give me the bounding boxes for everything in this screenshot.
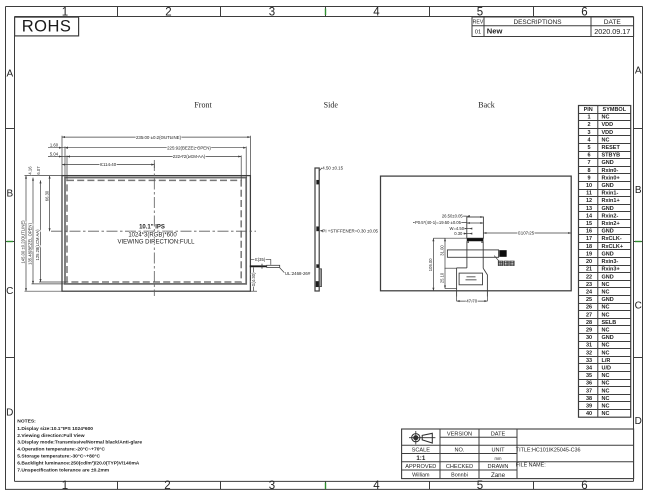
svg-text:26: 26 bbox=[586, 305, 592, 311]
svg-text:31: 31 bbox=[586, 343, 592, 349]
svg-text:4.Operation temperature:-20°C~: 4.Operation temperature:-20°C~+70°C bbox=[17, 447, 105, 453]
bottom green centering mark bbox=[325, 481, 327, 489]
svg-text:NC: NC bbox=[602, 411, 610, 417]
svg-text:NC: NC bbox=[602, 350, 610, 356]
svg-text:RESET: RESET bbox=[602, 145, 621, 151]
svg-text:NC: NC bbox=[602, 381, 610, 387]
svg-text:1: 1 bbox=[62, 480, 68, 492]
svg-text:Rxin1-: Rxin1- bbox=[602, 191, 619, 197]
svg-text:2: 2 bbox=[587, 122, 590, 128]
svg-text:NC: NC bbox=[602, 137, 610, 143]
svg-text:12: 12 bbox=[586, 198, 592, 204]
svg-text:01: 01 bbox=[475, 29, 481, 35]
svg-text:Rxin2+: Rxin2+ bbox=[602, 221, 620, 227]
front view active area dashed rectangle bbox=[67, 180, 241, 282]
svg-text:DESCRIPTIONS: DESCRIPTIONS bbox=[514, 19, 562, 26]
svg-text:SCALE: SCALE bbox=[412, 448, 431, 454]
svg-text:NC: NC bbox=[602, 396, 610, 402]
back dim vertical 105.00 bbox=[432, 238, 434, 291]
bottom strip ticks bbox=[117, 481, 119, 489]
svg-text:24: 24 bbox=[586, 289, 593, 295]
svg-text:VDD: VDD bbox=[602, 130, 614, 136]
svg-text:DATE: DATE bbox=[604, 19, 622, 26]
svg-text:21: 21 bbox=[586, 267, 592, 273]
dimension small 5.04 bbox=[48, 156, 67, 158]
svg-text:17: 17 bbox=[586, 236, 592, 242]
svg-text:PIN: PIN bbox=[584, 107, 593, 113]
svg-text:DATE: DATE bbox=[491, 431, 506, 437]
svg-text:5.04: 5.04 bbox=[50, 151, 59, 156]
svg-text:UNIT: UNIT bbox=[491, 448, 505, 454]
dimension C114.40 center bbox=[62, 164, 154, 166]
svg-text:28: 28 bbox=[586, 320, 592, 326]
label box text lines bbox=[467, 276, 476, 278]
svg-text:1024*3(RGB)*600: 1024*3(RGB)*600 bbox=[128, 233, 177, 239]
front view bezel opening rectangle bbox=[65, 178, 246, 284]
svg-text:C: C bbox=[635, 301, 642, 312]
svg-text:mm: mm bbox=[495, 456, 502, 461]
svg-text:0.30: 0.30 bbox=[454, 231, 463, 236]
svg-text:Bonnbi: Bonnbi bbox=[451, 473, 468, 479]
svg-text:2: 2 bbox=[165, 6, 171, 18]
svg-text:Rxin3-: Rxin3- bbox=[602, 259, 619, 265]
svg-text:25.10: 25.10 bbox=[440, 272, 445, 283]
svg-text:13: 13 bbox=[586, 206, 592, 212]
svg-text:6.Backlight luminance:250(cd/m: 6.Backlight luminance:250(cd/m²)/20.0(TY… bbox=[17, 461, 140, 467]
front view vertical center line bbox=[153, 160, 155, 296]
svg-text:22: 22 bbox=[586, 274, 592, 280]
svg-text:38: 38 bbox=[586, 396, 592, 402]
extension lines left bbox=[25, 175, 63, 177]
back dim vertical 31.00 and 25.10 bbox=[444, 238, 446, 288]
svg-text:D: D bbox=[635, 416, 642, 427]
svg-text:5: 5 bbox=[477, 480, 483, 492]
svg-text:William: William bbox=[412, 473, 430, 479]
svg-text:APPROVED: APPROVED bbox=[405, 464, 436, 470]
svg-text:35: 35 bbox=[586, 373, 592, 379]
svg-text:225.92(BEZEL OPEN): 225.92(BEZEL OPEN) bbox=[167, 145, 211, 150]
svg-text:Rxin2-: Rxin2- bbox=[602, 213, 619, 219]
side view black segment middle bbox=[316, 227, 319, 232]
back fpc tail widening bbox=[457, 267, 467, 269]
dimension 47.70 fpc tail width bbox=[456, 297, 458, 302]
dimension 19.50 pins bbox=[467, 222, 470, 224]
dimension W=4.50 bbox=[464, 228, 471, 230]
svg-text:STBYB: STBYB bbox=[602, 153, 621, 159]
svg-text:33: 33 bbox=[586, 358, 592, 364]
svg-text:Rxin0+: Rxin0+ bbox=[602, 175, 620, 181]
svg-text:RxCLK+: RxCLK+ bbox=[602, 244, 624, 250]
svg-text:GND: GND bbox=[602, 297, 614, 303]
svg-text:New: New bbox=[487, 27, 503, 36]
svg-text:Front: Front bbox=[194, 101, 212, 110]
svg-text:VDD: VDD bbox=[602, 122, 614, 128]
svg-text:Back: Back bbox=[478, 101, 494, 110]
dimension 222.72 lcm aa width bbox=[67, 156, 241, 158]
svg-text:11: 11 bbox=[586, 191, 592, 197]
svg-text:C: C bbox=[6, 286, 13, 297]
back view outline rectangle bbox=[381, 176, 572, 291]
svg-text:4: 4 bbox=[373, 480, 380, 492]
dimension 66.30 center height bbox=[49, 176, 51, 232]
masking tape chinese label bbox=[498, 261, 503, 266]
dimension C(35) bbox=[250, 258, 270, 260]
svg-text:145.00 ±0.2(OUTLINE): 145.00 ±0.2(OUTLINE) bbox=[21, 220, 26, 264]
svg-text:6.07: 6.07 bbox=[36, 166, 41, 175]
svg-text:6: 6 bbox=[581, 480, 587, 492]
masking tape leader bbox=[494, 256, 499, 262]
back fpc connector body bbox=[467, 217, 484, 238]
svg-text:125.28(LCM AA): 125.28(LCM AA) bbox=[35, 229, 40, 261]
svg-text:29: 29 bbox=[586, 327, 592, 333]
svg-text:SELB: SELB bbox=[602, 320, 617, 326]
svg-text:DRAWN: DRAWN bbox=[488, 464, 509, 470]
svg-text:NOTES:: NOTES: bbox=[17, 418, 36, 424]
svg-text:16: 16 bbox=[586, 229, 592, 235]
dimension 0.30 bbox=[464, 233, 471, 235]
right strip ticks bbox=[634, 128, 643, 130]
svg-text:NC: NC bbox=[602, 403, 610, 409]
svg-text:PI +STIFFENER=0.30 ±0.05: PI +STIFFENER=0.30 ±0.05 bbox=[322, 228, 378, 233]
svg-text:2020.09.17: 2020.09.17 bbox=[594, 27, 630, 36]
dimension small 1.60 bbox=[48, 147, 65, 149]
svg-text:15: 15 bbox=[586, 221, 592, 227]
svg-text:NO.: NO. bbox=[455, 448, 465, 454]
svg-text:VERSION: VERSION bbox=[447, 431, 472, 437]
side dimension 4.50 bbox=[320, 168, 323, 171]
svg-text:66.30: 66.30 bbox=[44, 190, 49, 201]
svg-text:6: 6 bbox=[587, 153, 590, 159]
svg-text:A: A bbox=[635, 66, 642, 77]
back masking tape slot bbox=[447, 250, 498, 257]
svg-text:NC: NC bbox=[602, 305, 610, 311]
svg-text:20: 20 bbox=[586, 259, 592, 265]
svg-text:2.Viewing direction:Full View: 2.Viewing direction:Full View bbox=[17, 433, 84, 439]
svg-text:NC: NC bbox=[602, 282, 610, 288]
third angle projection symbol bbox=[409, 431, 435, 444]
svg-text:GND: GND bbox=[602, 183, 614, 189]
svg-text:14: 14 bbox=[586, 213, 593, 219]
svg-text:Rxin1+: Rxin1+ bbox=[602, 198, 620, 204]
svg-text:23: 23 bbox=[586, 282, 592, 288]
side view black segment top bbox=[316, 180, 319, 184]
front fpc tail bbox=[267, 265, 280, 267]
svg-text:3: 3 bbox=[269, 480, 275, 492]
svg-text:C114.40: C114.40 bbox=[100, 162, 117, 167]
left strip ticks bbox=[5, 128, 15, 130]
svg-text:4.50 ±0.15: 4.50 ±0.15 bbox=[322, 165, 343, 170]
extension lines top bbox=[61, 136, 63, 176]
svg-text:B: B bbox=[635, 185, 642, 196]
svg-text:1.60: 1.60 bbox=[50, 143, 59, 148]
svg-text:Zane: Zane bbox=[491, 472, 506, 479]
top strip ticks bbox=[117, 7, 119, 17]
svg-text:L/R: L/R bbox=[602, 358, 611, 364]
dimension 125.28 aa height bbox=[40, 180, 42, 282]
back fpc tail sides bbox=[466, 241, 468, 268]
ROHS logo box bbox=[15, 17, 79, 36]
side view fpc fold bar bbox=[319, 269, 321, 287]
svg-text:105.00: 105.00 bbox=[428, 258, 433, 271]
side view black segment bottom bbox=[316, 281, 319, 287]
svg-text:47.70: 47.70 bbox=[466, 299, 478, 304]
svg-text:36: 36 bbox=[586, 381, 592, 387]
svg-text:Rxin3+: Rxin3+ bbox=[602, 267, 620, 273]
svg-text:A: A bbox=[6, 69, 13, 80]
svg-text:TITLE:HC101IK25045-C36: TITLE:HC101IK25045-C36 bbox=[516, 448, 581, 454]
front view outline rectangle bbox=[62, 176, 250, 292]
side view black segment lower bbox=[316, 264, 319, 267]
svg-text:GND: GND bbox=[602, 229, 614, 235]
svg-text:4.16: 4.16 bbox=[28, 166, 33, 175]
svg-text:SYMBOL: SYMBOL bbox=[603, 107, 627, 113]
svg-text:CHECKED: CHECKED bbox=[446, 464, 473, 470]
svg-text:NC: NC bbox=[602, 343, 610, 349]
svg-text:NC: NC bbox=[602, 289, 610, 295]
title block frame bbox=[402, 429, 634, 479]
svg-text:5.Storage temperature:-30°C~+8: 5.Storage temperature:-30°C~+80°C bbox=[17, 454, 100, 460]
dimension 145.00 outline height bbox=[25, 176, 27, 292]
svg-text:4: 4 bbox=[373, 6, 380, 18]
svg-text:10.1" IPS: 10.1" IPS bbox=[139, 224, 165, 230]
back fpc connector black bar bbox=[467, 238, 484, 241]
svg-text:34: 34 bbox=[586, 365, 593, 371]
front view horizontal center line bbox=[51, 230, 256, 232]
svg-text:C(35): C(35) bbox=[255, 257, 266, 262]
side view body bbox=[315, 168, 319, 291]
back label box bbox=[459, 273, 482, 285]
svg-text:NC: NC bbox=[602, 312, 610, 318]
masking tape black square bbox=[499, 250, 506, 257]
svg-text:18: 18 bbox=[586, 244, 592, 250]
inner border frame bbox=[14, 17, 16, 482]
svg-text:RxCLK-: RxCLK- bbox=[602, 236, 622, 242]
svg-text:27: 27 bbox=[586, 312, 592, 318]
svg-text:9: 9 bbox=[587, 175, 590, 181]
svg-text:235.00 ±0.2(OUTLINE): 235.00 ±0.2(OUTLINE) bbox=[136, 135, 182, 140]
svg-text:GND: GND bbox=[602, 206, 614, 212]
svg-text:32: 32 bbox=[586, 350, 592, 356]
svg-text:7: 7 bbox=[587, 160, 590, 166]
svg-text:8: 8 bbox=[587, 168, 590, 174]
svg-text:3: 3 bbox=[587, 130, 590, 136]
revision table bbox=[472, 17, 634, 37]
pin table bbox=[579, 106, 631, 418]
svg-text:REV: REV bbox=[473, 20, 484, 26]
svg-text:40: 40 bbox=[586, 411, 592, 417]
svg-text:U/D: U/D bbox=[602, 365, 612, 371]
svg-text:GND: GND bbox=[602, 160, 614, 166]
dimension C(4.30) bbox=[253, 267, 255, 291]
svg-text:3: 3 bbox=[269, 6, 275, 18]
svg-text:D: D bbox=[6, 408, 13, 419]
svg-text:GND: GND bbox=[602, 251, 614, 257]
svg-text:B: B bbox=[6, 188, 13, 199]
svg-text:1:1: 1:1 bbox=[416, 455, 426, 462]
svg-text:P0.5*(40-1)=19.50 ±0.05: P0.5*(40-1)=19.50 ±0.05 bbox=[415, 220, 462, 225]
side dimension PI stiffener bbox=[320, 230, 323, 232]
svg-text:Side: Side bbox=[324, 101, 339, 110]
svg-text:C(4.30): C(4.30) bbox=[251, 272, 256, 287]
dimension 225.92 bezel open width bbox=[65, 147, 246, 149]
svg-text:31.00: 31.00 bbox=[440, 245, 445, 256]
svg-text:30: 30 bbox=[586, 335, 592, 341]
dimension 135.48 bezel height bbox=[32, 178, 34, 284]
svg-text:3.Display mode:Transmissive/No: 3.Display mode:Transmissive/Normal black… bbox=[17, 440, 142, 446]
svg-text:NC: NC bbox=[602, 373, 610, 379]
svg-text:19: 19 bbox=[586, 251, 592, 257]
svg-text:ROHS: ROHS bbox=[22, 18, 72, 36]
front fpc exit thick bar bbox=[250, 265, 267, 267]
svg-text:10: 10 bbox=[586, 183, 592, 189]
svg-text:NC: NC bbox=[602, 388, 610, 394]
svg-text:VIEWING DIRECTION:FULL: VIEWING DIRECTION:FULL bbox=[117, 240, 195, 246]
top green centering mark bbox=[325, 7, 327, 17]
svg-text:1: 1 bbox=[587, 115, 590, 121]
leader UL:2468-26# bbox=[280, 268, 285, 273]
svg-text:1.Display size:10.1"IPS 1024*6: 1.Display size:10.1"IPS 1024*600 bbox=[17, 426, 93, 432]
left green centering mark bbox=[5, 241, 15, 243]
back connector feet bbox=[467, 241, 469, 243]
svg-text:39: 39 bbox=[586, 403, 592, 409]
svg-text:GND: GND bbox=[602, 274, 614, 280]
svg-text:GND: GND bbox=[602, 335, 614, 341]
svg-text:FILE NAME:: FILE NAME: bbox=[516, 463, 546, 469]
svg-text:NC: NC bbox=[602, 115, 610, 121]
svg-text:NC: NC bbox=[602, 327, 610, 333]
svg-text:Rxin0-: Rxin0- bbox=[602, 168, 619, 174]
svg-text:222.72(LCM AA): 222.72(LCM AA) bbox=[173, 154, 206, 159]
dimension C107.25 bbox=[483, 232, 571, 234]
svg-text:25: 25 bbox=[586, 297, 592, 303]
svg-text:2: 2 bbox=[164, 480, 170, 492]
svg-text:C107.25: C107.25 bbox=[518, 231, 535, 236]
right green centering mark bbox=[634, 241, 643, 243]
dimension 26.50 connector bbox=[443, 215, 467, 217]
svg-text:37: 37 bbox=[586, 388, 592, 394]
svg-text:7.Unspecification tolerance ar: 7.Unspecification tolerance are ±0.2mm bbox=[17, 468, 109, 474]
svg-text:26.50±0.05: 26.50±0.05 bbox=[442, 213, 464, 218]
outer border frame bbox=[5, 7, 7, 490]
dimension 235.00 outline width bbox=[62, 136, 250, 138]
svg-text:135.48(BEZEL OPEN): 135.48(BEZEL OPEN) bbox=[28, 223, 33, 265]
svg-text:UL:2468-26#: UL:2468-26# bbox=[285, 271, 311, 276]
svg-text:5: 5 bbox=[587, 145, 590, 151]
